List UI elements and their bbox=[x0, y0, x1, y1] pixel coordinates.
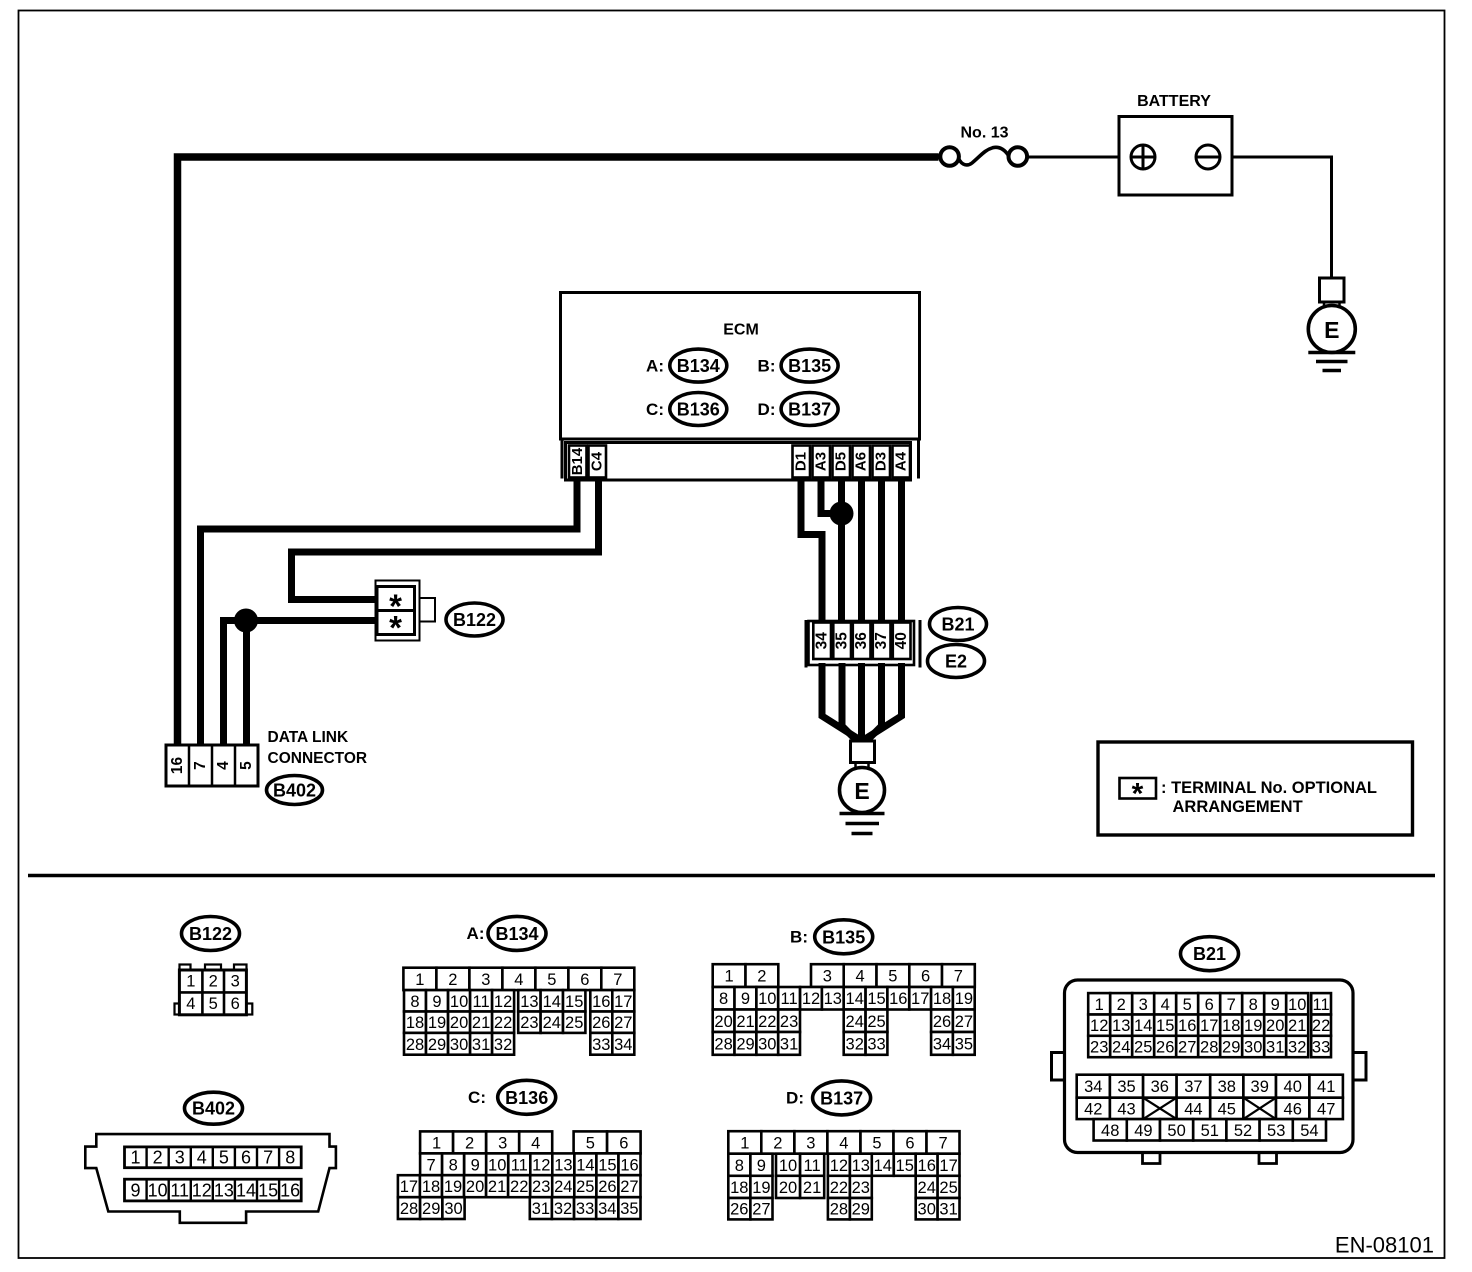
svg-text:21: 21 bbox=[736, 1013, 754, 1031]
svg-text:B136: B136 bbox=[505, 1088, 548, 1108]
svg-text:17: 17 bbox=[400, 1178, 418, 1196]
svg-text:*: * bbox=[1132, 778, 1144, 811]
svg-text:31: 31 bbox=[939, 1201, 957, 1219]
svg-text:34: 34 bbox=[814, 632, 831, 650]
svg-text:B21: B21 bbox=[941, 615, 974, 635]
wire B21 pin34 to ground node bbox=[822, 663, 859, 739]
junction node (DLC wires) bbox=[234, 609, 258, 633]
svg-text:A3: A3 bbox=[813, 452, 830, 471]
svg-text:33: 33 bbox=[1312, 1039, 1330, 1057]
svg-text:16: 16 bbox=[889, 990, 907, 1008]
svg-text:29: 29 bbox=[852, 1201, 870, 1219]
svg-text:23: 23 bbox=[520, 1014, 538, 1032]
svg-text:A4: A4 bbox=[893, 451, 910, 471]
svg-text:B402: B402 bbox=[192, 1099, 235, 1119]
svg-text:8: 8 bbox=[719, 990, 728, 1008]
svg-text:22: 22 bbox=[510, 1178, 528, 1196]
svg-text:26: 26 bbox=[933, 1013, 951, 1031]
svg-text:DATA LINK: DATA LINK bbox=[268, 729, 349, 746]
ground E (ECM side) bbox=[840, 741, 885, 834]
svg-text:49: 49 bbox=[1134, 1122, 1152, 1140]
svg-text:41: 41 bbox=[1317, 1078, 1335, 1096]
svg-text:9: 9 bbox=[757, 1157, 766, 1175]
svg-text:27: 27 bbox=[1178, 1039, 1196, 1057]
wire battery feed: fuse to DLC pin16 bbox=[178, 157, 939, 745]
svg-text:2: 2 bbox=[1117, 996, 1126, 1014]
connector B136 pinout bbox=[398, 1131, 641, 1219]
connector B402 pinout 1-16 bbox=[85, 1134, 336, 1223]
fuse No. 13 bbox=[940, 125, 1027, 166]
svg-text:11: 11 bbox=[781, 990, 798, 1008]
svg-text:E2: E2 bbox=[945, 652, 967, 672]
wire battery to ground E bbox=[1208, 157, 1332, 278]
svg-text:22: 22 bbox=[758, 1013, 776, 1031]
wire ECM D3 to B21 pin37 bbox=[878, 479, 885, 625]
svg-text:21: 21 bbox=[472, 1014, 490, 1032]
connector B21 pinout bottom grid 34-54 bbox=[1077, 1075, 1343, 1141]
svg-text:32: 32 bbox=[554, 1200, 572, 1218]
svg-text:10: 10 bbox=[779, 1157, 797, 1175]
svg-text:30: 30 bbox=[1244, 1039, 1262, 1057]
oval B21 (pinout label) bbox=[1181, 937, 1239, 971]
svg-text:B122: B122 bbox=[453, 610, 496, 630]
svg-text:8: 8 bbox=[410, 993, 419, 1011]
svg-text:30: 30 bbox=[918, 1201, 936, 1219]
wire B21 pin36 to ground node bbox=[858, 663, 865, 744]
wire fuse to battery bbox=[1027, 156, 1143, 159]
svg-text:10: 10 bbox=[450, 993, 468, 1011]
svg-text:28: 28 bbox=[1200, 1039, 1218, 1057]
svg-text:16: 16 bbox=[280, 1180, 300, 1200]
svg-text:25: 25 bbox=[1134, 1039, 1152, 1057]
connector block B21/E2 pins 34-40 bbox=[806, 620, 920, 668]
svg-text:34: 34 bbox=[1084, 1078, 1102, 1096]
svg-text:19: 19 bbox=[955, 990, 973, 1008]
label C: bbox=[468, 1088, 486, 1107]
svg-text:20: 20 bbox=[450, 1014, 468, 1032]
svg-text:14: 14 bbox=[874, 1157, 892, 1175]
wire ECM C4 to B122 upper pin bbox=[292, 479, 599, 600]
wire ECM A3 to junction on D5 wire bbox=[821, 479, 838, 514]
svg-text:3: 3 bbox=[1139, 996, 1148, 1014]
svg-text:31: 31 bbox=[1266, 1039, 1284, 1057]
svg-text:ECM: ECM bbox=[723, 322, 759, 339]
connector B137 pinout bbox=[728, 1131, 959, 1219]
svg-text:6: 6 bbox=[231, 995, 240, 1013]
svg-text:13: 13 bbox=[554, 1156, 572, 1174]
ECM connector pin row bbox=[562, 439, 919, 480]
svg-text:18: 18 bbox=[730, 1179, 748, 1197]
svg-text:15: 15 bbox=[1156, 1017, 1174, 1035]
svg-text:45: 45 bbox=[1218, 1100, 1236, 1118]
svg-text:13: 13 bbox=[214, 1180, 234, 1200]
connector B122 pinout 1-6 bbox=[175, 965, 253, 1015]
svg-text:3: 3 bbox=[175, 1148, 185, 1168]
svg-text:5: 5 bbox=[872, 1135, 881, 1153]
svg-text:12: 12 bbox=[532, 1156, 550, 1174]
svg-text:35: 35 bbox=[955, 1035, 973, 1053]
svg-text:16: 16 bbox=[592, 993, 610, 1011]
svg-text:1: 1 bbox=[130, 1148, 140, 1168]
svg-text:7: 7 bbox=[427, 1156, 436, 1174]
svg-text:25: 25 bbox=[565, 1014, 583, 1032]
svg-text:9: 9 bbox=[741, 990, 750, 1008]
svg-text:10: 10 bbox=[758, 990, 776, 1008]
svg-text:24: 24 bbox=[554, 1178, 572, 1196]
svg-text:12: 12 bbox=[1090, 1017, 1108, 1035]
svg-text:24: 24 bbox=[543, 1014, 561, 1032]
svg-text:16: 16 bbox=[918, 1157, 936, 1175]
svg-text:35: 35 bbox=[620, 1200, 638, 1218]
svg-text:4: 4 bbox=[1161, 996, 1170, 1014]
svg-text:5: 5 bbox=[586, 1134, 595, 1152]
svg-text:17: 17 bbox=[614, 993, 632, 1011]
svg-text:34: 34 bbox=[598, 1200, 616, 1218]
svg-text:C:: C: bbox=[468, 1088, 486, 1107]
svg-text:7: 7 bbox=[939, 1135, 948, 1153]
svg-text:53: 53 bbox=[1267, 1122, 1285, 1140]
svg-text:EN-08101: EN-08101 bbox=[1335, 1233, 1434, 1258]
svg-text:37: 37 bbox=[1184, 1078, 1202, 1096]
svg-text:38: 38 bbox=[1218, 1078, 1236, 1096]
oval B134 (pinout label) bbox=[488, 916, 546, 950]
svg-text:3: 3 bbox=[481, 971, 490, 989]
svg-text:2: 2 bbox=[153, 1148, 163, 1168]
svg-text:B137: B137 bbox=[788, 400, 831, 420]
svg-text:1: 1 bbox=[740, 1135, 749, 1153]
svg-text:4: 4 bbox=[186, 995, 195, 1013]
svg-text:C4: C4 bbox=[589, 451, 606, 471]
svg-text:42: 42 bbox=[1084, 1100, 1102, 1118]
svg-text:7: 7 bbox=[613, 971, 622, 989]
svg-text:10: 10 bbox=[148, 1180, 168, 1200]
svg-text:6: 6 bbox=[905, 1135, 914, 1153]
svg-text:D1: D1 bbox=[793, 452, 810, 471]
svg-text:19: 19 bbox=[752, 1179, 770, 1197]
svg-text:36: 36 bbox=[1151, 1078, 1169, 1096]
svg-text:27: 27 bbox=[614, 1014, 632, 1032]
svg-text:4: 4 bbox=[197, 1148, 207, 1168]
svg-text:C:: C: bbox=[646, 400, 664, 419]
svg-text:10: 10 bbox=[1288, 996, 1306, 1014]
svg-text:1: 1 bbox=[1095, 996, 1104, 1014]
oval B122 (pinout label) bbox=[182, 917, 240, 951]
svg-text:B402: B402 bbox=[273, 781, 316, 801]
svg-text:13: 13 bbox=[1112, 1017, 1130, 1035]
svg-text:20: 20 bbox=[779, 1179, 797, 1197]
svg-text:E: E bbox=[854, 778, 869, 804]
wire DLC pin5 to B122 lower pin bbox=[247, 621, 376, 746]
svg-text:32: 32 bbox=[1288, 1039, 1306, 1057]
svg-text:15: 15 bbox=[598, 1156, 616, 1174]
ECM U1 bbox=[561, 293, 920, 440]
connector B134 pinout bbox=[403, 968, 634, 1055]
wire ECM B14 to DLC pin7 bbox=[201, 479, 578, 745]
svg-text:17: 17 bbox=[939, 1157, 957, 1175]
wire B21 pin35 to ground node bbox=[842, 663, 859, 743]
svg-text:: TERMINAL No. OPTIONAL: : TERMINAL No. OPTIONAL bbox=[1161, 779, 1377, 797]
svg-text:32: 32 bbox=[846, 1035, 864, 1053]
wire ECM A6 to B21 pin36 bbox=[858, 479, 865, 625]
svg-text:15: 15 bbox=[867, 990, 885, 1008]
svg-text:26: 26 bbox=[730, 1201, 748, 1219]
svg-text:3: 3 bbox=[823, 968, 832, 986]
label B: bbox=[790, 927, 808, 946]
svg-text:8: 8 bbox=[285, 1148, 295, 1168]
svg-text:9: 9 bbox=[130, 1180, 140, 1200]
svg-text:12: 12 bbox=[192, 1180, 212, 1200]
svg-text:1: 1 bbox=[415, 971, 424, 989]
svg-text:18: 18 bbox=[1222, 1017, 1240, 1035]
svg-text:24: 24 bbox=[918, 1179, 936, 1197]
svg-text:8: 8 bbox=[1249, 996, 1258, 1014]
oval B137 (pinout label) bbox=[813, 1081, 871, 1115]
svg-text:19: 19 bbox=[1244, 1017, 1262, 1035]
svg-text:20: 20 bbox=[1266, 1017, 1284, 1035]
svg-text:26: 26 bbox=[1156, 1039, 1174, 1057]
svg-text:14: 14 bbox=[1134, 1017, 1152, 1035]
svg-text:11: 11 bbox=[804, 1157, 821, 1175]
svg-text:19: 19 bbox=[444, 1178, 462, 1196]
wire ECM D5 to B21 pin35 bbox=[838, 479, 845, 625]
oval B21 (schematic label) bbox=[930, 608, 987, 641]
svg-text:5: 5 bbox=[1183, 996, 1192, 1014]
svg-text:50: 50 bbox=[1167, 1122, 1185, 1140]
svg-text:5: 5 bbox=[209, 995, 218, 1013]
svg-text:18: 18 bbox=[422, 1178, 440, 1196]
svg-text:1: 1 bbox=[432, 1134, 441, 1152]
svg-text:29: 29 bbox=[428, 1036, 446, 1054]
svg-text:21: 21 bbox=[803, 1179, 821, 1197]
oval B402 (schematic label) bbox=[267, 776, 323, 805]
svg-text:4: 4 bbox=[215, 761, 232, 770]
oval B122 (schematic label) bbox=[446, 603, 503, 636]
svg-text:15: 15 bbox=[565, 993, 583, 1011]
svg-text:ARRANGEMENT: ARRANGEMENT bbox=[1173, 798, 1303, 816]
svg-text:19: 19 bbox=[428, 1014, 446, 1032]
svg-text:28: 28 bbox=[714, 1035, 732, 1053]
svg-text:14: 14 bbox=[236, 1180, 256, 1200]
svg-text:31: 31 bbox=[780, 1035, 798, 1053]
svg-text:B:: B: bbox=[790, 927, 808, 946]
svg-text:23: 23 bbox=[1090, 1039, 1108, 1057]
wire ECM D1 to B21 pin34 bbox=[801, 479, 822, 625]
footer code EN-08101 bbox=[1335, 1233, 1434, 1258]
svg-text:9: 9 bbox=[471, 1156, 480, 1174]
svg-text:23: 23 bbox=[532, 1178, 550, 1196]
svg-text:12: 12 bbox=[494, 993, 512, 1011]
svg-text:E: E bbox=[1324, 317, 1339, 343]
svg-text:16: 16 bbox=[169, 757, 186, 775]
svg-text:D:: D: bbox=[758, 400, 776, 419]
svg-text:17: 17 bbox=[1200, 1017, 1218, 1035]
svg-text:46: 46 bbox=[1284, 1100, 1302, 1118]
svg-text:48: 48 bbox=[1101, 1122, 1119, 1140]
svg-text:11: 11 bbox=[511, 1156, 528, 1174]
connector B135 pinout bbox=[713, 964, 975, 1055]
svg-text:20: 20 bbox=[466, 1178, 484, 1196]
svg-text:32: 32 bbox=[494, 1036, 512, 1054]
svg-text:33: 33 bbox=[592, 1036, 610, 1054]
label DATA LINK CONNECTOR bbox=[268, 729, 368, 767]
wire B21 pin37 to ground node bbox=[865, 663, 882, 743]
wire ECM A4 to B21 pin40 bbox=[898, 479, 905, 625]
svg-text:29: 29 bbox=[1222, 1039, 1240, 1057]
svg-text:9: 9 bbox=[1271, 996, 1280, 1014]
svg-text:B21: B21 bbox=[1193, 944, 1226, 964]
svg-text:A:: A: bbox=[646, 357, 664, 376]
svg-text:6: 6 bbox=[921, 968, 930, 986]
svg-text:15: 15 bbox=[896, 1157, 914, 1175]
connector B21 pinout top grid 1-33 bbox=[1088, 993, 1331, 1057]
svg-text:11: 11 bbox=[170, 1180, 189, 1200]
svg-text:21: 21 bbox=[488, 1178, 506, 1196]
svg-text:25: 25 bbox=[576, 1178, 594, 1196]
svg-text:26: 26 bbox=[592, 1014, 610, 1032]
svg-text:22: 22 bbox=[830, 1179, 848, 1197]
svg-text:25: 25 bbox=[867, 1013, 885, 1031]
label A: bbox=[467, 924, 485, 943]
svg-text:13: 13 bbox=[520, 993, 538, 1011]
svg-text:13: 13 bbox=[852, 1157, 870, 1175]
svg-text:30: 30 bbox=[444, 1200, 462, 1218]
svg-text:B134: B134 bbox=[495, 924, 538, 944]
svg-text:24: 24 bbox=[1112, 1039, 1130, 1057]
svg-text:27: 27 bbox=[620, 1178, 638, 1196]
svg-text:5: 5 bbox=[238, 761, 255, 770]
svg-text:14: 14 bbox=[543, 993, 561, 1011]
svg-text:3: 3 bbox=[498, 1134, 507, 1152]
svg-text:17: 17 bbox=[911, 990, 929, 1008]
svg-text:CONNECTOR: CONNECTOR bbox=[268, 750, 368, 767]
svg-text:7: 7 bbox=[192, 761, 209, 770]
connector B402 data link connector (schematic) bbox=[166, 745, 258, 786]
svg-text:5: 5 bbox=[888, 968, 897, 986]
svg-text:*: * bbox=[389, 609, 402, 646]
oval B135 (pinout label) bbox=[815, 920, 873, 954]
svg-text:18: 18 bbox=[933, 990, 951, 1008]
svg-text:30: 30 bbox=[758, 1035, 776, 1053]
svg-text:2: 2 bbox=[465, 1134, 474, 1152]
svg-text:35: 35 bbox=[834, 632, 851, 650]
svg-text:47: 47 bbox=[1317, 1100, 1335, 1118]
wire B21 pin40 to ground node bbox=[865, 663, 902, 739]
legend: terminal no. optional arrangement bbox=[1098, 742, 1413, 835]
svg-text:9: 9 bbox=[432, 993, 441, 1011]
svg-text:8: 8 bbox=[449, 1156, 458, 1174]
svg-text:B135: B135 bbox=[788, 356, 831, 376]
svg-text:B134: B134 bbox=[677, 356, 720, 376]
oval B402 (pinout label) bbox=[185, 1092, 243, 1124]
svg-text:3: 3 bbox=[806, 1135, 815, 1153]
svg-text:A6: A6 bbox=[853, 452, 870, 471]
svg-text:51: 51 bbox=[1201, 1122, 1219, 1140]
svg-text:30: 30 bbox=[450, 1036, 468, 1054]
svg-text:B136: B136 bbox=[677, 400, 720, 420]
svg-text:31: 31 bbox=[472, 1036, 490, 1054]
svg-text:40: 40 bbox=[1284, 1078, 1302, 1096]
svg-text:3: 3 bbox=[231, 973, 240, 991]
svg-text:33: 33 bbox=[576, 1200, 594, 1218]
svg-text:34: 34 bbox=[614, 1036, 632, 1054]
svg-text:39: 39 bbox=[1251, 1078, 1269, 1096]
svg-text:D:: D: bbox=[786, 1088, 804, 1107]
svg-text:4: 4 bbox=[531, 1134, 540, 1152]
svg-text:40: 40 bbox=[893, 632, 910, 649]
svg-text:6: 6 bbox=[1205, 996, 1214, 1014]
svg-text:34: 34 bbox=[933, 1035, 951, 1053]
svg-text:22: 22 bbox=[494, 1014, 512, 1032]
svg-text:7: 7 bbox=[954, 968, 963, 986]
svg-text:20: 20 bbox=[714, 1013, 732, 1031]
svg-text:D3: D3 bbox=[873, 452, 890, 471]
connector B21 pinout housing bbox=[1052, 980, 1367, 1164]
svg-text:B122: B122 bbox=[189, 924, 232, 944]
oval E2 (schematic label) bbox=[928, 645, 985, 678]
oval B136 (pinout label) bbox=[498, 1080, 556, 1114]
junction node (A3/D5) bbox=[830, 502, 854, 526]
svg-text:7: 7 bbox=[1227, 996, 1236, 1014]
svg-text:4: 4 bbox=[856, 968, 865, 986]
svg-text:D5: D5 bbox=[833, 452, 850, 471]
battery bbox=[1119, 93, 1232, 195]
svg-text:29: 29 bbox=[422, 1200, 440, 1218]
svg-text:2: 2 bbox=[209, 973, 218, 991]
svg-text:A:: A: bbox=[467, 924, 485, 943]
svg-text:B:: B: bbox=[758, 357, 776, 376]
label D: bbox=[786, 1088, 804, 1107]
svg-text:5: 5 bbox=[547, 971, 556, 989]
svg-text:29: 29 bbox=[736, 1035, 754, 1053]
svg-text:7: 7 bbox=[263, 1148, 273, 1168]
svg-text:36: 36 bbox=[853, 632, 870, 650]
svg-text:B135: B135 bbox=[822, 927, 865, 947]
svg-text:35: 35 bbox=[1117, 1078, 1135, 1096]
svg-text:5: 5 bbox=[219, 1148, 229, 1168]
svg-text:B137: B137 bbox=[820, 1088, 863, 1108]
svg-text:2: 2 bbox=[448, 971, 457, 989]
svg-text:6: 6 bbox=[241, 1148, 251, 1168]
svg-text:12: 12 bbox=[830, 1157, 848, 1175]
svg-text:2: 2 bbox=[773, 1135, 782, 1153]
svg-text:16: 16 bbox=[620, 1156, 638, 1174]
svg-text:8: 8 bbox=[735, 1157, 744, 1175]
svg-text:43: 43 bbox=[1117, 1100, 1135, 1118]
svg-text:27: 27 bbox=[752, 1201, 770, 1219]
ground E (battery side) bbox=[1308, 278, 1355, 371]
svg-text:13: 13 bbox=[824, 990, 842, 1008]
svg-text:52: 52 bbox=[1234, 1122, 1252, 1140]
svg-text:37: 37 bbox=[873, 632, 890, 649]
svg-text:26: 26 bbox=[598, 1178, 616, 1196]
svg-text:14: 14 bbox=[846, 990, 864, 1008]
svg-text:24: 24 bbox=[846, 1013, 864, 1031]
svg-text:28: 28 bbox=[400, 1200, 418, 1218]
svg-text:21: 21 bbox=[1288, 1017, 1306, 1035]
svg-text:4: 4 bbox=[514, 971, 523, 989]
svg-text:BATTERY: BATTERY bbox=[1137, 93, 1211, 110]
svg-text:No. 13: No. 13 bbox=[960, 125, 1008, 142]
svg-text:11: 11 bbox=[1313, 996, 1330, 1014]
svg-text:25: 25 bbox=[939, 1179, 957, 1197]
svg-text:6: 6 bbox=[619, 1134, 628, 1152]
svg-text:54: 54 bbox=[1300, 1122, 1318, 1140]
svg-text:27: 27 bbox=[955, 1013, 973, 1031]
svg-text:31: 31 bbox=[532, 1200, 550, 1218]
svg-text:12: 12 bbox=[802, 990, 820, 1008]
wire DLC pin4 to junction bbox=[224, 621, 244, 746]
svg-text:23: 23 bbox=[852, 1179, 870, 1197]
